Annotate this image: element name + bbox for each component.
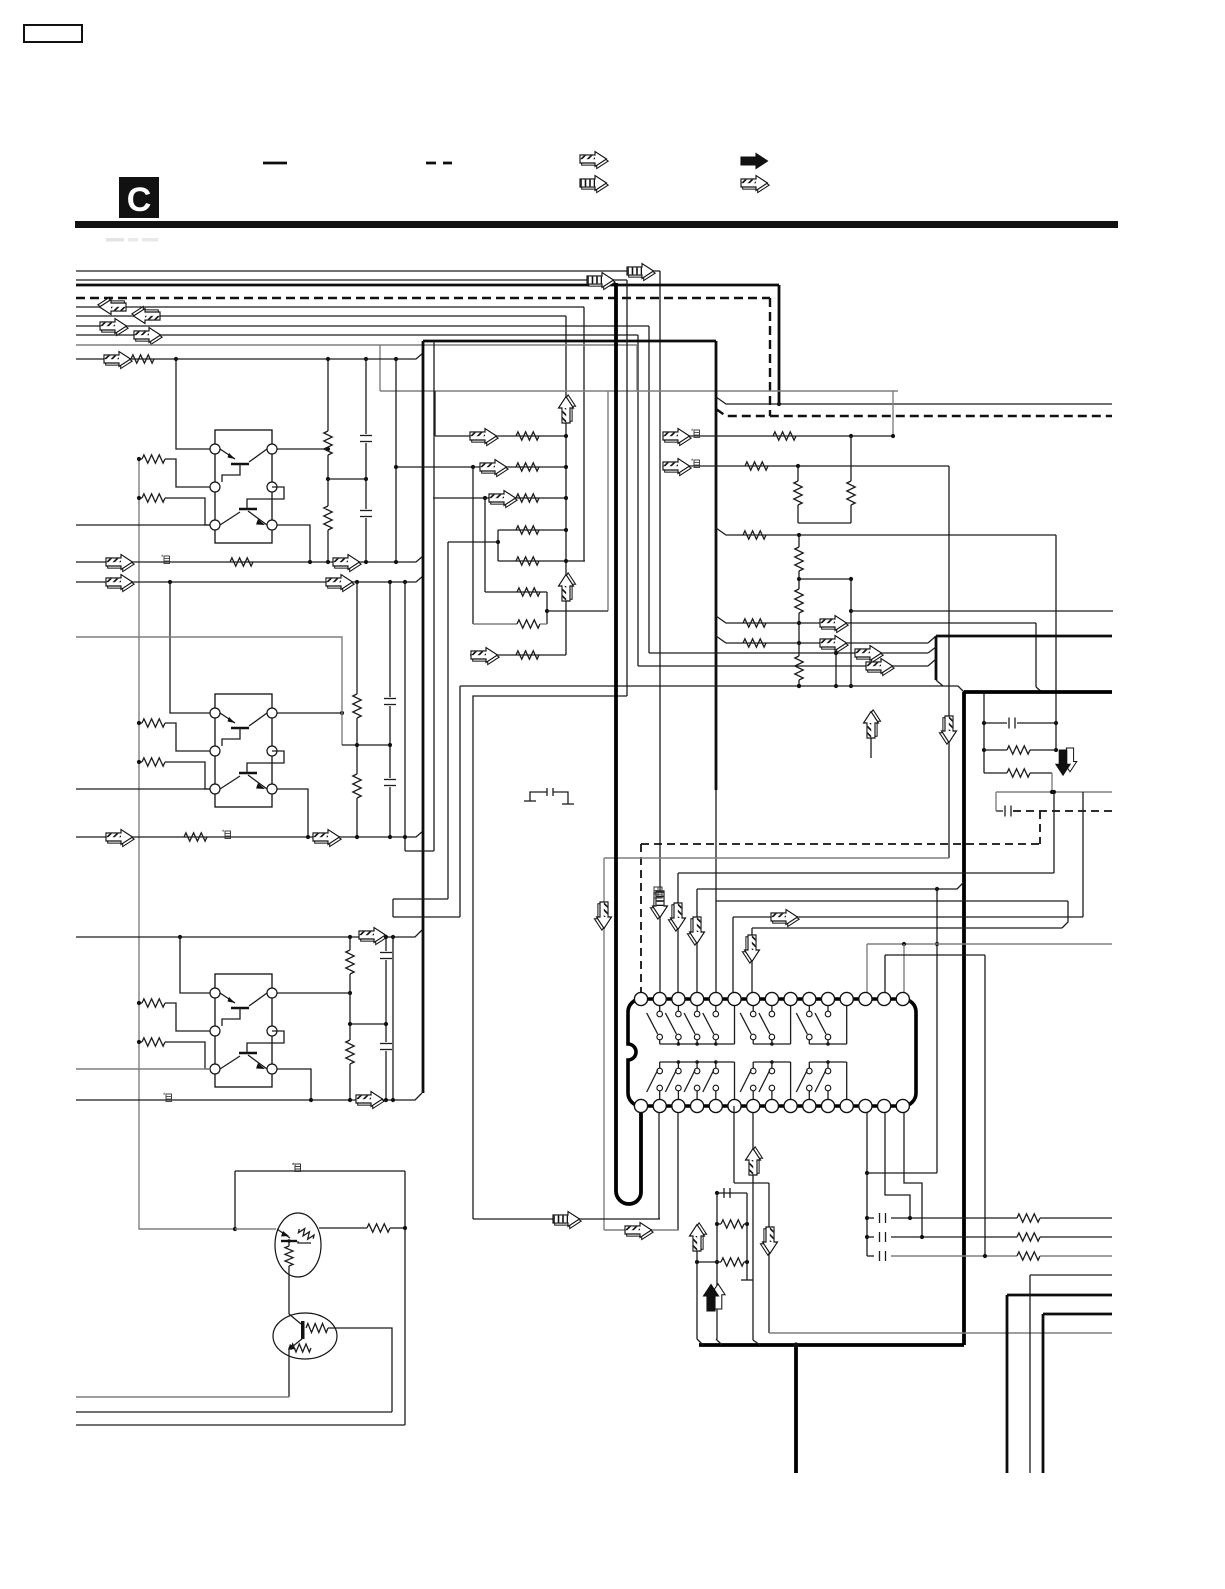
Q3Q4 pin circle left-bot	[210, 784, 220, 794]
thick corner 964	[964, 690, 1112, 694]
IC switch S39 top	[796, 1006, 812, 1044]
IC pin 9 top	[784, 992, 797, 1005]
resistor row 1224	[717, 1220, 747, 1228]
junction V328 mid	[326, 477, 330, 481]
box row 530	[498, 529, 566, 531]
arrow row653	[855, 646, 883, 663]
wire to IC pin14 top	[884, 955, 886, 993]
arrow row436r	[663, 429, 691, 446]
arrow down V769	[760, 1227, 777, 1255]
Q1Q2 pin circle right-mid	[267, 482, 277, 492]
junction row582 c	[388, 580, 392, 584]
row 917r	[733, 916, 1083, 918]
Q3Q4 pin circle right-mid	[267, 746, 277, 756]
IC switch bus bottom group3	[809, 1061, 846, 1063]
wire to Q1 base	[176, 359, 210, 449]
wire to IC pin3 top	[677, 873, 679, 993]
junction row467 left	[471, 465, 475, 469]
arrow down V949	[939, 716, 956, 744]
pin5 wire continuation	[715, 790, 717, 993]
row 901	[716, 900, 1068, 902]
IC pin 10 top	[803, 992, 816, 1005]
Q5Q6 pin circle left-top	[210, 988, 220, 998]
IC pin 11 top	[821, 992, 834, 1005]
thick row 1295	[1007, 1294, 1112, 1297]
cap row 1193	[717, 1192, 747, 1194]
resistor row837	[184, 833, 207, 841]
drop V627 from bus	[626, 280, 628, 696]
link row 611	[547, 610, 608, 612]
junction row937 c	[384, 935, 388, 939]
box row 436	[435, 435, 566, 437]
arrow into bus 1	[627, 264, 655, 281]
IC pin 28 bottom	[859, 1099, 872, 1112]
wire to IC pin7 top	[751, 928, 753, 993]
resistor row655	[516, 651, 539, 659]
link row 479	[328, 478, 366, 480]
drop V1030	[1029, 1275, 1031, 1473]
bus 6 drop to row 653	[648, 326, 650, 653]
Q7 collector resistor	[319, 1224, 405, 1232]
merge V936 to row686	[936, 680, 943, 686]
bottom row 1412	[76, 1411, 392, 1413]
IC pin 24 bottom	[784, 1099, 797, 1112]
junction row467 far left	[394, 465, 398, 469]
resistor row 750	[984, 746, 1056, 754]
block1 bias resistor upper	[139, 455, 210, 487]
arrow down to pin7	[742, 935, 759, 963]
drop V473	[473, 696, 627, 1219]
arrow row655	[471, 648, 499, 665]
junction row837 a	[355, 835, 359, 839]
resistor box row 467	[516, 463, 539, 471]
IC switch S27 top	[759, 1006, 775, 1044]
junction row359 b	[326, 357, 330, 361]
row 623 gray	[716, 616, 1036, 623]
signal row 466	[663, 465, 949, 467]
IC pin 21 bottom	[728, 1099, 741, 1112]
pin17 wire down	[658, 1113, 660, 1219]
thick drop V1043	[1042, 1314, 1045, 1473]
bus wire 3 dashed	[76, 297, 770, 299]
arrow mid row1100	[356, 1092, 384, 1109]
wire row 404	[716, 397, 1112, 404]
junction row1100 c	[391, 1098, 395, 1102]
arrow down to IC pin2	[650, 891, 667, 919]
row 1230	[604, 1229, 679, 1231]
faint caption	[106, 238, 124, 242]
arrow row917r	[771, 910, 799, 927]
jog row 917	[393, 916, 460, 918]
Q3Q4 transistor T2	[220, 751, 284, 789]
IC switch bus bottom group2	[753, 1061, 790, 1063]
IC pin 15 top	[896, 992, 909, 1005]
net label row837	[222, 830, 231, 839]
row 643	[716, 636, 928, 643]
wire to IC pin15 top	[903, 944, 905, 993]
link row 523	[798, 522, 851, 524]
arrow row1230	[625, 1223, 653, 1240]
row 1171	[235, 1170, 405, 1172]
Q3Q4 pin circle left-mid	[210, 746, 220, 756]
Q1Q2 transistor T2	[220, 487, 284, 525]
row 889	[697, 882, 964, 889]
capacitor C on V366 upper	[360, 435, 372, 437]
Q3Q4 package outline	[215, 694, 272, 807]
drop V435	[434, 391, 436, 436]
junction V366 mid	[364, 477, 368, 481]
drop V1054	[1053, 792, 1055, 873]
black arrow down	[1056, 748, 1077, 775]
Q5Q6 package outline	[215, 974, 272, 1087]
shield box right edge	[715, 341, 718, 790]
Q5 collector to divider	[277, 992, 350, 994]
row 611	[851, 610, 1113, 612]
pin18 wire down	[677, 1113, 679, 1230]
arrow row623	[820, 616, 848, 633]
row 655 return	[470, 654, 566, 656]
IC pin 23 bottom	[765, 1099, 778, 1112]
cluster V748	[746, 1193, 748, 1280]
IC switch S57 bottom	[759, 1062, 775, 1099]
IC pin 6 top	[728, 992, 741, 1005]
resistor on V328 lower	[324, 506, 332, 530]
gray drop V380	[379, 345, 381, 391]
cap row 1218	[867, 1213, 1112, 1223]
link V498	[497, 530, 499, 561]
box row 498	[433, 497, 566, 499]
connector grid symbol	[654, 887, 662, 898]
resistor row466	[745, 462, 768, 470]
gray row 1333	[769, 1332, 1112, 1334]
IC pin 19 bottom	[691, 1099, 704, 1112]
resistor box row592	[517, 588, 540, 596]
IC switch bus top group2	[753, 1043, 790, 1045]
bus wire 7	[76, 334, 638, 336]
gray rail 391	[380, 390, 898, 392]
column V405	[404, 582, 406, 851]
link row 1183	[734, 1182, 769, 1184]
inner trace VB	[447, 542, 449, 899]
gray row 792	[996, 791, 1112, 793]
junction row937	[178, 935, 182, 939]
resistor V799 r1	[795, 547, 803, 571]
input row to Q5 emitter gray	[76, 1068, 210, 1070]
IC switch S43 bottom	[684, 1062, 700, 1099]
ladder V799	[798, 535, 800, 547]
resistor box row 498	[516, 494, 539, 502]
section label C	[119, 177, 159, 218]
drop V1056	[1055, 535, 1057, 751]
signal row 1100	[76, 1093, 422, 1100]
wire to Q5 base	[180, 937, 210, 993]
signal row 937	[76, 930, 422, 937]
wire to IC pin6 top	[732, 917, 734, 993]
row 873	[678, 872, 1054, 874]
thick drop V1007	[1006, 1295, 1009, 1473]
pin30 staircase	[904, 1113, 922, 1237]
pin28 wire down	[866, 1113, 868, 1173]
IC switch S44 bottom	[703, 1062, 719, 1099]
IC switch S56 bottom	[740, 1062, 756, 1099]
resistor V851	[847, 481, 855, 505]
resistor row535	[743, 531, 766, 539]
drop V460	[459, 686, 461, 917]
row 955	[885, 954, 985, 956]
IC pin 27 bottom	[840, 1099, 853, 1112]
bus 7 drop to row 666	[637, 335, 639, 666]
junction row1100 b	[384, 1098, 388, 1102]
Q5Q6 transistor T2	[220, 1031, 284, 1069]
arrow in 6	[100, 319, 128, 336]
block2 bias resistor lower	[139, 758, 210, 789]
arrow mid row582	[326, 575, 354, 592]
IC pin 17 bottom	[653, 1099, 666, 1112]
jog row666	[928, 659, 936, 666]
row 1219	[473, 1218, 660, 1220]
bus wire 2 thick	[76, 284, 779, 287]
stub arrow up 871	[870, 738, 872, 758]
IC switch S41 bottom	[647, 1062, 663, 1099]
IC pin 20 bottom	[709, 1099, 722, 1112]
cluster V717	[716, 1193, 718, 1339]
bus wire 1	[76, 270, 660, 272]
row 666	[638, 665, 928, 667]
dashed row 416	[716, 409, 1112, 416]
wire to IC pin2 top	[659, 271, 661, 993]
link V393a	[392, 899, 394, 917]
net label row562	[161, 555, 170, 564]
node column V566	[565, 316, 567, 655]
IC pin 26 bottom	[821, 1099, 834, 1112]
capacitor V386 lower	[380, 1043, 392, 1045]
signal row 562	[76, 556, 423, 562]
resistor row562	[230, 558, 253, 566]
row 686	[460, 686, 964, 692]
resistor V799 r2	[795, 589, 803, 613]
stub V697	[696, 1227, 698, 1339]
drop V473b	[472, 467, 474, 624]
stub V1068	[1062, 901, 1068, 928]
resistor V799 r3	[795, 656, 803, 680]
ladder V851b	[850, 579, 852, 686]
arrow in row582	[106, 575, 134, 592]
junction row562 c	[394, 560, 398, 564]
junction row837 b	[388, 835, 392, 839]
terminator T	[741, 1279, 753, 1281]
Q3Q4 pin circle right-bot	[267, 784, 277, 794]
Q6 collector tap	[277, 1069, 311, 1100]
Q5Q6 pin circle right-bot	[267, 1064, 277, 1074]
pin22 wire down	[752, 1113, 754, 1340]
transistor Q8	[273, 1313, 337, 1359]
block2 bias resistor upper	[139, 719, 210, 751]
row 928	[752, 927, 1062, 929]
row 1173	[867, 1172, 937, 1174]
Q4 collector tap	[277, 789, 308, 837]
svg-text:C: C	[127, 181, 152, 219]
Q5Q6 pin circle right-top	[267, 988, 277, 998]
legend box top-left	[24, 25, 82, 42]
IC pin 16 bottom	[634, 1099, 647, 1112]
drop V949	[948, 466, 950, 858]
arrow box row 436	[470, 429, 498, 446]
Q1Q2 package outline	[215, 430, 272, 543]
jog row643 up	[928, 636, 936, 643]
thick bottom row 1345	[699, 1343, 964, 1347]
capacitor column V390	[389, 582, 391, 697]
signal row 837	[76, 831, 423, 837]
resistor row 773	[984, 769, 1052, 777]
drop V1036	[1035, 623, 1037, 687]
IC switch S42 bottom	[665, 1062, 681, 1099]
resistor row436r	[773, 432, 796, 440]
Q1 collector tap	[277, 525, 310, 562]
Q5Q6 pin circle left-bot	[210, 1064, 220, 1074]
resistor row623	[743, 619, 766, 627]
divider V798	[797, 466, 799, 481]
Q7 emitter wire	[288, 1266, 290, 1314]
gray drop V608	[607, 391, 609, 611]
bottom row 1425	[76, 1424, 405, 1426]
Q1Q2 transistor T1	[220, 449, 267, 482]
legend dashed-line sample	[426, 162, 452, 165]
Q1 collector to divider	[277, 448, 328, 450]
link row 579	[799, 578, 851, 580]
transistor Q7	[275, 1213, 321, 1277]
bus 2 drop	[778, 285, 781, 404]
net label row1100	[163, 1093, 172, 1102]
merge V697 to 1345	[697, 1339, 703, 1345]
arrow mid row837	[313, 830, 341, 847]
arrow down to pin4	[687, 917, 704, 945]
drop V985	[984, 955, 986, 1256]
dashed row 811	[996, 810, 1003, 812]
junction row582 d	[403, 580, 407, 584]
IC pin 22 bottom	[747, 1099, 760, 1112]
gray drop V637	[636, 345, 638, 391]
header rule	[75, 221, 1118, 228]
cap row 1237	[867, 1232, 1112, 1242]
IC switch S13 top	[684, 1006, 700, 1044]
thick stub V936	[935, 636, 938, 680]
arrow box row 467	[480, 460, 508, 477]
link row 542	[448, 541, 498, 543]
junction row466	[796, 464, 800, 468]
drop V235	[234, 1171, 236, 1229]
merge V717 to 1345	[716, 1339, 722, 1345]
arrow row666	[866, 659, 894, 676]
arrow in row 359	[104, 352, 132, 369]
Q8 emitter wire	[288, 1348, 290, 1397]
capacitor V390 upper	[384, 698, 396, 700]
divider column V328	[327, 359, 329, 431]
Q3 collector to divider	[277, 712, 342, 714]
black arrow up pair	[704, 1284, 726, 1311]
junction row1100 a	[348, 1098, 352, 1102]
legend arrow striped	[580, 176, 608, 193]
Q5Q6 transistor T1	[220, 993, 267, 1026]
Q3Q4 pin circle right-top	[267, 708, 277, 718]
capacitor V390 lower	[384, 779, 396, 781]
IC U1 outline	[628, 999, 916, 1106]
junction row498 left	[483, 496, 487, 500]
resistor V357 lower	[353, 774, 361, 798]
shield box left edge	[422, 341, 425, 1093]
arrow in 7	[134, 328, 162, 345]
bus wire 4	[76, 306, 584, 308]
row 535	[716, 528, 1056, 535]
Q3Q4 pin circle left-top	[210, 708, 220, 718]
box row 467	[396, 466, 566, 468]
IC pin 4 top	[691, 992, 704, 1005]
arrow box row 498	[489, 491, 517, 508]
Q5Q6 pin circle right-mid	[267, 1026, 277, 1036]
arrow in row837	[106, 830, 134, 847]
arrow up on V566 a	[559, 395, 576, 423]
junction row582	[168, 580, 172, 584]
resistor R row359	[131, 355, 154, 363]
legend arrow solid	[741, 154, 768, 169]
row 1275	[1030, 1274, 1112, 1276]
resistor box row561	[516, 557, 539, 565]
junction row359 a	[174, 357, 178, 361]
IC switch S310 top	[815, 1006, 831, 1044]
IC switch S14 top	[703, 1006, 719, 1044]
drop V769	[768, 1183, 770, 1333]
shield box outline top	[423, 340, 716, 343]
signal row 582	[76, 576, 423, 582]
IC pin 12 top	[840, 992, 853, 1005]
rail to Q base row gray	[139, 1052, 235, 1229]
dashed drop to IC pin1	[640, 844, 642, 993]
resistor box row624	[517, 620, 540, 628]
arrow out left 1	[98, 297, 126, 314]
junction row582 b	[355, 580, 359, 584]
net label row436r	[691, 429, 700, 438]
Q7 base wire	[235, 1228, 276, 1230]
net label row466	[691, 459, 700, 468]
IC switch bus top group3	[809, 1043, 846, 1045]
IC pin 25 bottom	[803, 1099, 816, 1112]
Q1Q2 pin circle right-bot	[267, 520, 277, 530]
feeder V984	[983, 693, 985, 773]
arrow up V753	[746, 1147, 763, 1175]
capacitor column V386	[385, 937, 387, 951]
link row 1024	[350, 1023, 386, 1025]
arrow up on V566 b	[559, 573, 576, 601]
Q1Q2 pin circle left-mid	[210, 482, 220, 492]
jog row653	[928, 647, 936, 653]
junction row436r	[849, 434, 853, 438]
cap row 1256 gray	[867, 1251, 1112, 1261]
Q1Q2 pin circle right-top	[267, 444, 277, 454]
dashed link V1040	[1039, 811, 1041, 844]
wire to IC pin13 top	[866, 944, 868, 993]
resistor on V328 upper	[324, 431, 332, 455]
junction row359 c	[364, 357, 368, 361]
arrow mid row562	[333, 555, 361, 572]
dashed row 844	[641, 843, 1040, 845]
thick drop V796	[794, 1345, 798, 1473]
Q3Q4 transistor T1	[220, 713, 267, 746]
column V405c	[404, 1171, 406, 1425]
stub V836	[835, 653, 837, 686]
junction row937 d	[391, 935, 395, 939]
feeder V996	[995, 792, 997, 811]
inner trace VA	[433, 341, 435, 851]
Q8 collector wire	[328, 1328, 392, 1412]
